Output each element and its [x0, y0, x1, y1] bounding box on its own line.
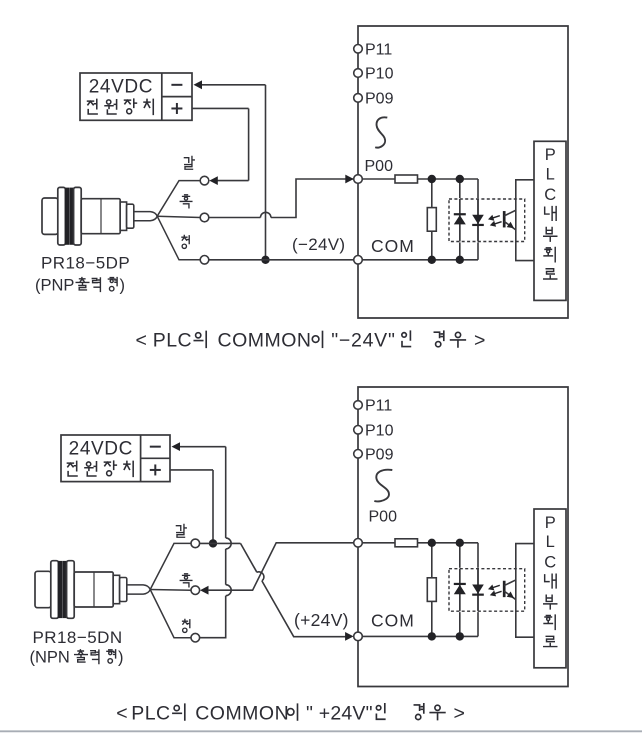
- svg-text:COM: COM: [371, 236, 415, 256]
- svg-text:C: C: [544, 554, 556, 572]
- svg-text:P09: P09: [365, 447, 394, 464]
- svg-text:<: <: [116, 702, 127, 724]
- svg-text:(NPN: (NPN: [30, 649, 70, 667]
- svg-text:P09: P09: [365, 91, 394, 108]
- svg-text:(+24V): (+24V): [294, 610, 349, 630]
- svg-text:24VDC: 24VDC: [89, 77, 153, 98]
- svg-text:COM: COM: [371, 611, 415, 631]
- svg-text:C: C: [544, 186, 556, 204]
- svg-text:): ): [120, 277, 126, 295]
- svg-text:"−24V": "−24V": [331, 330, 395, 352]
- svg-text:P10: P10: [365, 423, 394, 440]
- svg-text:PLC: PLC: [131, 702, 170, 724]
- svg-text:P00: P00: [369, 509, 398, 526]
- svg-text:>: >: [454, 702, 465, 724]
- svg-text:COMMON: COMMON: [218, 330, 312, 352]
- svg-text:P00: P00: [365, 158, 394, 175]
- svg-text:): ): [118, 649, 124, 667]
- svg-text:P: P: [545, 514, 556, 532]
- svg-text:PLC: PLC: [153, 330, 192, 352]
- svg-text:L: L: [546, 165, 555, 183]
- svg-text:PR18−5DP: PR18−5DP: [41, 254, 130, 273]
- svg-text:" +24V": " +24V": [306, 702, 373, 724]
- svg-text:P10: P10: [365, 66, 394, 83]
- svg-text:>: >: [474, 330, 485, 352]
- svg-text:<: <: [136, 330, 147, 352]
- svg-text:P11: P11: [365, 42, 392, 59]
- svg-text:L: L: [546, 533, 555, 551]
- svg-text:P: P: [545, 146, 556, 164]
- svg-text:P11: P11: [365, 398, 392, 415]
- svg-text:24VDC: 24VDC: [69, 439, 133, 460]
- svg-text:PR18−5DN: PR18−5DN: [33, 628, 123, 647]
- svg-text:COMMON: COMMON: [195, 702, 289, 724]
- svg-text:(PNP: (PNP: [35, 277, 74, 295]
- svg-text:(−24V): (−24V): [292, 235, 345, 254]
